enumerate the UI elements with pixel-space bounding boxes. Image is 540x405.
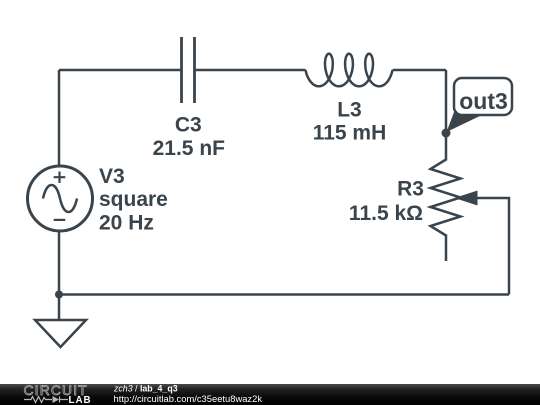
svg-text:out3: out3 <box>459 88 508 114</box>
wire capacitor to inductor <box>195 69 306 72</box>
svg-text:L3: L3 <box>337 99 362 122</box>
logo schematic line <box>24 397 68 403</box>
svg-text:LAB: LAB <box>69 395 92 405</box>
inductor L3 <box>306 54 393 87</box>
wire bottom horizontal <box>59 293 509 296</box>
capacitor C3 <box>182 37 195 103</box>
svg-text:V3: V3 <box>99 165 125 188</box>
resistor R3 <box>431 133 461 261</box>
voltage source V3 <box>28 166 93 231</box>
wire ground stub <box>58 295 61 321</box>
wire left vertical bottom <box>58 231 61 295</box>
wire left vertical top <box>58 70 61 166</box>
ground <box>35 320 86 347</box>
svg-text:11.5 kΩ: 11.5 kΩ <box>349 202 423 225</box>
logo diode <box>53 396 60 403</box>
wire right vertical to node <box>445 70 448 133</box>
svg-text:21.5 nF: 21.5 nF <box>153 137 226 160</box>
svg-text:20 Hz: 20 Hz <box>99 212 154 235</box>
wire inductor to corner <box>393 69 447 72</box>
footer bar <box>0 384 540 405</box>
node junction left <box>55 291 63 299</box>
flag pointer out3 <box>447 110 483 133</box>
svg-text:115 mH: 115 mH <box>313 122 387 145</box>
svg-text:zch3 / lab_4_q3: zch3 / lab_4_q3 <box>113 384 178 394</box>
svg-text:http://circuitlab.com/c35eetu8: http://circuitlab.com/c35eetu8waz2k <box>114 393 263 404</box>
flag box out3 <box>454 78 512 115</box>
node junction out3 <box>442 129 451 138</box>
wire top-left to capacitor <box>59 69 182 72</box>
R3 wiper arrow <box>455 191 478 206</box>
svg-text:R3: R3 <box>397 178 424 201</box>
svg-text:C3: C3 <box>175 114 202 137</box>
wire right side up <box>474 198 509 295</box>
svg-text:square: square <box>99 188 168 211</box>
